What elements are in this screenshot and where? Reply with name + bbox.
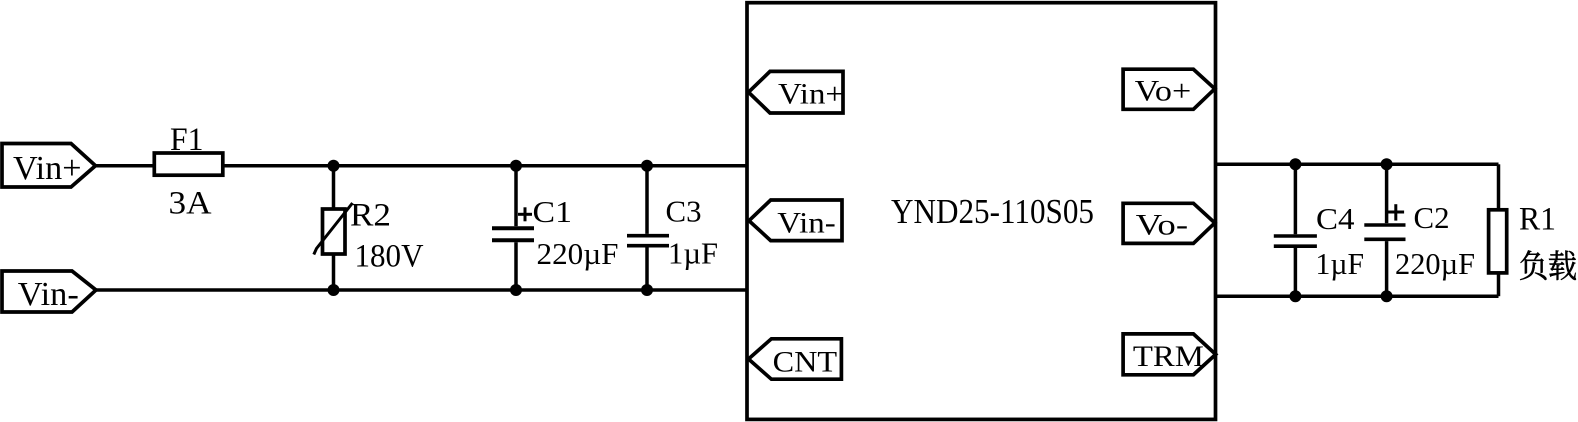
terminal Vin- bbox=[2, 271, 96, 313]
svg-text:Vin+: Vin+ bbox=[778, 78, 844, 111]
varistor R2 bbox=[314, 166, 424, 290]
node C4 bottom bbox=[1289, 290, 1301, 302]
wire bottom-left rail bbox=[96, 288, 747, 292]
svg-text:C1: C1 bbox=[533, 194, 573, 229]
svg-text:C4: C4 bbox=[1316, 201, 1355, 236]
svg-text:Vo-: Vo- bbox=[1136, 208, 1189, 241]
node C4 top bbox=[1289, 158, 1301, 170]
svg-text:R2: R2 bbox=[350, 198, 391, 234]
wire Vin+ to F1 bbox=[96, 164, 155, 168]
pin Vo- bbox=[1123, 203, 1215, 243]
svg-text:220µF: 220µF bbox=[1395, 246, 1475, 281]
svg-text:180V: 180V bbox=[355, 239, 424, 275]
capacitor C4 bbox=[1274, 164, 1364, 296]
svg-text:Vin+: Vin+ bbox=[13, 150, 82, 187]
node C2 top bbox=[1381, 158, 1393, 170]
svg-text:Vin-: Vin- bbox=[777, 207, 836, 240]
module U1 YND25-110S05 bbox=[747, 3, 1216, 420]
svg-text:R1: R1 bbox=[1519, 202, 1556, 238]
svg-text:TRM: TRM bbox=[1133, 340, 1204, 373]
svg-text:Vin-: Vin- bbox=[18, 276, 79, 313]
node C1 top bbox=[510, 160, 522, 172]
capacitor C3 bbox=[627, 166, 718, 290]
node C3 bottom bbox=[641, 284, 653, 296]
svg-text:C2: C2 bbox=[1414, 200, 1450, 235]
svg-text:YND25-110S05: YND25-110S05 bbox=[891, 192, 1094, 231]
svg-text:1µF: 1µF bbox=[1316, 246, 1365, 281]
label R1 fuzai (load) bbox=[1520, 250, 1576, 280]
svg-text:C3: C3 bbox=[666, 194, 702, 229]
svg-text:220µF: 220µF bbox=[537, 236, 619, 271]
svg-text:Vo+: Vo+ bbox=[1135, 74, 1192, 107]
pin Vin- bbox=[749, 200, 842, 241]
terminal Vin+ bbox=[2, 144, 96, 188]
node C3 top bbox=[641, 160, 653, 172]
fuse F1 bbox=[154, 122, 223, 222]
capacitor C1 bbox=[492, 166, 619, 290]
svg-text:CNT: CNT bbox=[773, 346, 838, 379]
node R2 top bbox=[328, 160, 340, 172]
node C2 bottom bbox=[1381, 290, 1393, 302]
capacitor C2 bbox=[1364, 164, 1475, 296]
wire top-right rail bbox=[1216, 163, 1499, 167]
pin Vin+ bbox=[749, 71, 845, 113]
pin Vo+ bbox=[1123, 69, 1215, 109]
wire bottom-right rail bbox=[1216, 294, 1499, 298]
wire F1 to module bbox=[223, 164, 747, 168]
pin TRM bbox=[1123, 334, 1216, 375]
svg-text:3A: 3A bbox=[169, 186, 212, 222]
pin CNT bbox=[749, 339, 842, 379]
resistor R1 load bbox=[1489, 164, 1556, 296]
svg-text:F1: F1 bbox=[170, 122, 204, 158]
svg-text:1µF: 1µF bbox=[668, 236, 718, 271]
node C1 bottom bbox=[510, 284, 522, 296]
node R2 bottom bbox=[328, 284, 340, 296]
